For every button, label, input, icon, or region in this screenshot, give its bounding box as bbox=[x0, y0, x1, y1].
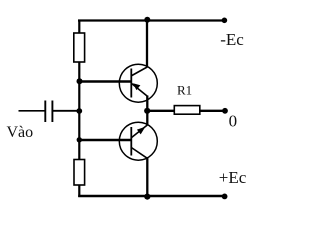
svg-text:Vào: Vào bbox=[7, 124, 34, 141]
svg-text:-Ec: -Ec bbox=[220, 30, 244, 49]
svg-text:0: 0 bbox=[229, 112, 238, 131]
svg-text:+Ec: +Ec bbox=[219, 168, 247, 187]
svg-text:R1: R1 bbox=[177, 83, 192, 98]
